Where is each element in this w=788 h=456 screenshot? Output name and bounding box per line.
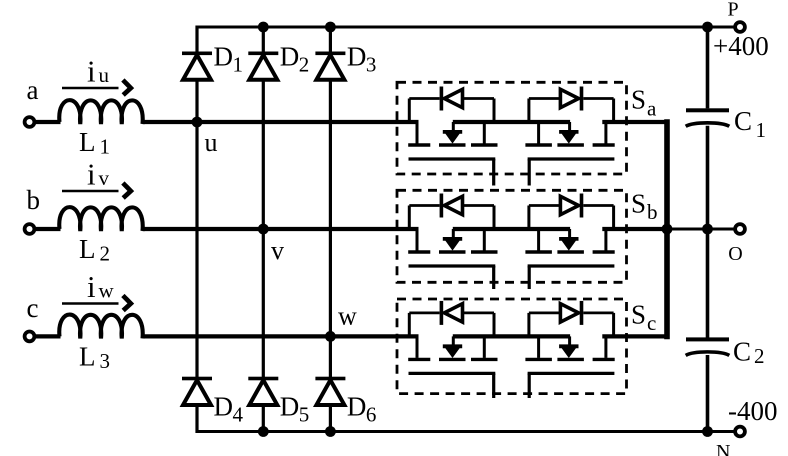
gate bar right MOSFET Sc [528,372,615,375]
svg-text:S: S [631,188,646,218]
wire switch output bus [664,122,670,336]
svg-text:O: O [728,243,742,265]
diode D2 [248,52,278,56]
body diode of right MOSFET Sa [529,97,561,100]
svg-text:2: 2 [299,53,310,77]
left MOSFET of Sa [408,99,497,146]
capacitor C1 [686,108,729,112]
junction top rail dc bus [702,22,713,33]
terminal N [735,427,745,437]
svg-text:4: 4 [233,403,244,427]
right MOSFET of Sc [525,313,614,360]
svg-text:i: i [87,54,96,89]
svg-text:3: 3 [366,53,377,77]
gate bar left MOSFET Sa [409,157,496,160]
wire dc bus lower [706,355,710,432]
gate lead left MOSFET Sb [492,266,495,289]
gate bar left MOSFET Sc [409,372,496,375]
svg-text:D: D [347,392,367,422]
svg-text:-400: -400 [728,396,778,426]
wire diode column 2 [262,26,265,434]
right MOSFET of Sa [525,99,614,146]
capacitor C2 [686,337,729,341]
svg-text:S: S [631,85,646,115]
svg-text:P: P [728,0,739,21]
svg-text:L: L [79,341,96,371]
junction top rail D3 [325,22,336,33]
current arrow i_u [62,87,119,90]
wire terminal b to inductor [34,227,60,231]
diode D5 [248,377,278,381]
svg-text:a: a [647,96,657,120]
body diode of left MOSFET Sa [409,97,439,100]
svg-text:a: a [27,75,39,105]
wire Sb output segment [604,227,667,231]
svg-text:+400: +400 [713,31,769,61]
wire diode column 1 [195,26,198,434]
svg-text:u: u [99,63,110,87]
input terminal a [25,117,35,127]
svg-text:1: 1 [233,53,244,77]
switch cell Sb dashed box [397,190,627,282]
wire phase c line [143,334,419,338]
wire Sa mid segment [453,120,570,124]
diode D3 [315,52,345,56]
diode D6 [315,377,345,381]
junction top rail D2 [258,22,269,33]
svg-text:u: u [205,128,218,157]
svg-text:5: 5 [299,403,310,427]
terminal P [735,22,745,32]
wire O node to terminal [708,228,736,231]
junction O on dc bus [702,224,713,235]
gate bar left MOSFET Sb [409,264,496,267]
node u [192,117,203,128]
inductor L2 [59,207,142,231]
wire terminal a to inductor [34,120,60,124]
svg-text:N: N [716,441,730,456]
gate bar right MOSFET Sb [528,264,615,267]
switch cell Sa dashed box [397,82,627,174]
gate lead right MOSFET Sc [528,373,531,398]
svg-text:w: w [338,302,357,331]
svg-text:i: i [87,269,96,304]
svg-text:i: i [87,157,96,192]
svg-text:C: C [733,337,751,367]
wire negative bottom rail N [197,430,736,433]
svg-text:1: 1 [100,135,111,159]
svg-text:D: D [214,392,234,422]
svg-text:D: D [280,41,300,71]
wire terminal c to inductor [34,334,60,338]
gate lead right MOSFET Sb [528,266,531,289]
node w [325,331,336,342]
svg-text:C: C [734,106,752,136]
left MOSFET of Sc [408,313,497,360]
diode D4 [182,377,212,381]
svg-text:D: D [214,41,234,71]
gate bar right MOSFET Sa [528,157,615,160]
svg-text:v: v [99,166,110,190]
svg-text:S: S [631,299,646,329]
body diode of left MOSFET Sb [409,204,439,207]
body diode of right MOSFET Sc [529,311,561,314]
wire dc bus upper [706,27,710,108]
wire Sa output segment [604,120,667,124]
wire dc bus middle [706,126,710,338]
node v [258,224,269,235]
svg-text:c: c [647,311,656,335]
input terminal c [25,332,35,342]
input terminal b [25,224,35,234]
terminal O [735,224,745,234]
inductor L3 [59,315,142,339]
svg-text:v: v [271,236,284,265]
svg-text:D: D [347,41,367,71]
gate lead left MOSFET Sa [492,159,495,186]
svg-text:6: 6 [366,403,377,427]
wire phase a line [143,120,419,124]
inductor L1 [59,100,142,124]
junction bottom rail D6 [325,426,336,437]
gate lead left MOSFET Sc [492,373,495,398]
body diode of left MOSFET Sc [409,311,439,314]
wire Sb mid segment [453,227,570,231]
current arrow i_w [62,302,119,305]
junction bottom rail D5 [258,426,269,437]
junction switch bus node [662,224,673,235]
svg-text:2: 2 [100,242,111,266]
diode D1 [182,52,212,56]
svg-text:D: D [280,392,300,422]
body diode of right MOSFET Sb [529,204,561,207]
wire positive top rail P [197,26,736,29]
svg-text:3: 3 [100,349,111,373]
gate lead right MOSFET Sa [528,159,531,186]
svg-text:L: L [79,127,96,157]
right MOSFET of Sb [525,206,614,253]
svg-text:1: 1 [756,118,767,142]
wire bus to O node [667,228,708,231]
svg-text:c: c [27,293,39,323]
svg-text:b: b [27,185,41,215]
current arrow i_v [62,190,119,193]
wire Sc output segment [604,334,667,338]
svg-text:w: w [99,279,115,303]
left MOSFET of Sb [408,206,497,253]
wire Sc mid segment [453,334,570,338]
switch cell Sc dashed box [397,299,627,394]
svg-text:2: 2 [754,344,765,368]
wire phase b line [143,227,419,231]
junction bottom rail dc bus [702,426,713,437]
svg-text:L: L [79,234,96,264]
wire diode column 3 [329,26,332,434]
svg-text:b: b [647,200,658,224]
